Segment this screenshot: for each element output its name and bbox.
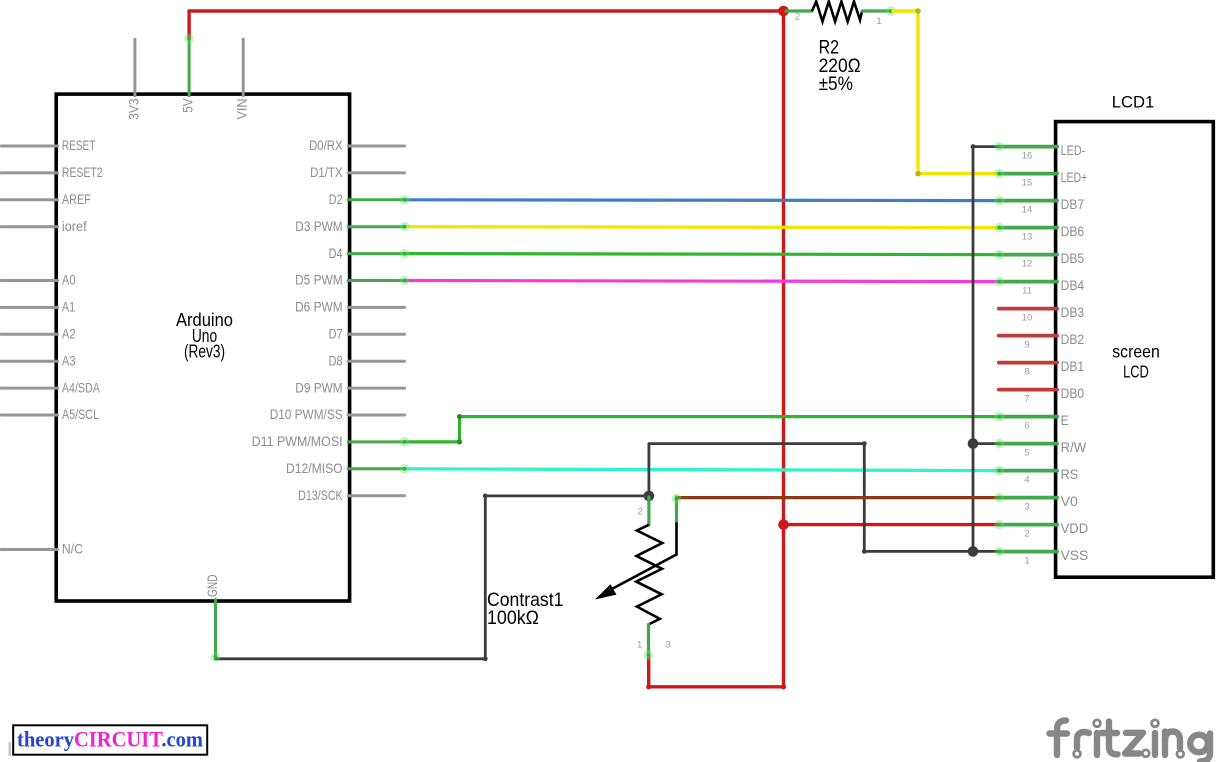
svg-text:100kΩ: 100kΩ [487, 608, 539, 629]
arduino U1 label "Arduino Uno (Rev3)" [176, 310, 233, 362]
svg-text:7: 7 [1024, 394, 1029, 405]
LCD pin stub DB7 (pin 14) [999, 199, 1057, 203]
svg-text:D5 PWM: D5 PWM [295, 272, 343, 288]
LCD pin stub E (pin 6) [999, 415, 1057, 419]
svg-text:DB4: DB4 [1061, 277, 1085, 293]
svg-text:3V3: 3V3 [125, 98, 141, 119]
svg-text:DB1: DB1 [1061, 358, 1085, 374]
wire gnd: vertical up [484, 496, 487, 659]
junction red at resistor [778, 6, 789, 17]
arduino pin stub A4/SDA [1, 387, 57, 390]
glow pot pin3 [672, 494, 682, 504]
svg-text:A1: A1 [62, 299, 75, 315]
wire gnd: jog down [863, 444, 866, 552]
junction red at VDD [778, 519, 789, 530]
scrollbar artifact tick [9, 742, 12, 756]
LCD pin stub V0 (pin 3) [999, 496, 1057, 500]
wire green D11 horizontal [405, 440, 460, 443]
svg-text:D11 PWM/MOSI: D11 PWM/MOSI [252, 433, 343, 449]
svg-text:3: 3 [1024, 502, 1029, 513]
resistor R2 left lead [786, 9, 812, 12]
svg-text:DB3: DB3 [1061, 304, 1085, 320]
svg-text:LCD1: LCD1 [1112, 93, 1155, 112]
wire red 5V: main vertical [782, 11, 785, 687]
svg-text:1: 1 [876, 16, 881, 27]
potentiometer Contrast1 zigzag [636, 525, 662, 625]
arduino pin stub D6 PWM [348, 306, 404, 309]
wire gnd: long vertical LED- to VSS [972, 147, 975, 552]
svg-text:ioref: ioref [62, 218, 87, 234]
arduino U1 box [56, 94, 349, 601]
arduino pin stub D5 PWM [348, 279, 404, 282]
LCD pin stub DB3 (pin 10) [999, 307, 1057, 311]
arduino pin stub A1 [1, 306, 57, 309]
arduino pin stub D12/MISO [348, 467, 404, 470]
resistor R2 zigzag [812, 2, 862, 22]
arduino pin stub A0 [1, 279, 57, 282]
svg-text:LCD: LCD [1123, 361, 1149, 381]
corner dot gnd [483, 656, 488, 661]
LCD pin stub DB5 (pin 12) [999, 253, 1057, 257]
svg-text:±5%: ±5% [819, 74, 853, 95]
junction pot pin2 [644, 491, 655, 502]
glow R2 pin1 [886, 6, 896, 16]
potentiometer Contrast1 pin2 stub [647, 497, 650, 525]
corner dot yellow bottom [915, 171, 921, 177]
glow pot pin1 [644, 650, 654, 660]
LCD pin stub R/W (pin 5) [999, 442, 1057, 446]
LCD1 box [1056, 122, 1214, 578]
svg-text:D3 PWM: D3 PWM [295, 218, 342, 234]
wire red 5V: vertical from 5V pin up [187, 11, 190, 38]
wire green to E pin [460, 415, 999, 418]
wire red: VDD branch [784, 523, 999, 526]
wire yellow: from R2 to corner [893, 9, 918, 12]
svg-text:2: 2 [795, 12, 800, 23]
pot pin3 lead black [675, 523, 678, 554]
svg-text:RESET2: RESET2 [62, 164, 103, 180]
svg-text:15: 15 [1022, 178, 1033, 189]
LCD pin stub DB1 (pin 8) [999, 361, 1057, 365]
wire gnd: vertical pot to R/W level [648, 444, 651, 496]
svg-text:12: 12 [1022, 259, 1033, 270]
svg-text:D12/MISO: D12/MISO [286, 460, 343, 476]
svg-text:11: 11 [1022, 286, 1032, 297]
svg-text:A5/SCL: A5/SCL [62, 406, 99, 422]
wire red: up to pot pin1 [647, 656, 650, 687]
corner dot gnd2 [483, 494, 488, 499]
svg-text:16: 16 [1022, 151, 1033, 162]
arduino pin stub D13/SCK [348, 494, 404, 497]
svg-text:V0: V0 [1061, 493, 1079, 509]
svg-text:E: E [1061, 412, 1069, 428]
wire gnd: to LED- pin [973, 145, 999, 148]
arduino pin stub D4 [348, 252, 404, 255]
svg-text:LED+: LED+ [1061, 169, 1088, 185]
svg-text:4: 4 [1024, 475, 1029, 486]
wire yellow: horizontal to LED+ [918, 172, 999, 175]
arduino pin stub VIN [242, 39, 245, 95]
arduino pin stub A3 [1, 360, 57, 363]
arduino pin stub D2 [348, 198, 404, 201]
svg-text:1: 1 [637, 640, 642, 651]
LCD pin stub DB2 (pin 9) [999, 334, 1057, 338]
svg-text:2: 2 [1024, 529, 1029, 540]
svg-text:D8: D8 [329, 352, 343, 368]
arduino pin stub D11 PWM/MOSI [348, 440, 404, 443]
svg-text:theoryCIRCUIT.com: theoryCIRCUIT.com [17, 727, 203, 752]
wire yellow: vertical [916, 11, 919, 174]
arduino pin stub AREF [1, 198, 57, 201]
wire yellow D3 to DB6 [405, 225, 999, 229]
svg-text:5: 5 [1024, 448, 1029, 459]
svg-text:(Rev3): (Rev3) [184, 342, 225, 362]
svg-text:GND: GND [204, 575, 220, 598]
pot wiper arrow [609, 555, 677, 591]
svg-text:D1/TX: D1/TX [310, 164, 343, 180]
svg-text:9: 9 [1024, 340, 1029, 351]
arduino pin stub D1/TX [348, 171, 404, 174]
corner dot red bottom right [781, 684, 786, 689]
wire red 5V: top horizontal [189, 9, 786, 12]
fritzing logo [1050, 721, 1211, 762]
svg-text:RESET: RESET [62, 137, 96, 153]
svg-text:D9 PWM: D9 PWM [295, 379, 342, 395]
wire red: bottom horizontal to pot pin1 [649, 685, 784, 688]
svg-text:VSS: VSS [1061, 547, 1089, 563]
wire gnd: to R/W pin [973, 442, 999, 445]
svg-text:DB2: DB2 [1061, 331, 1085, 347]
wire cyan D12/MISO to RS [405, 469, 999, 471]
svg-text:A4/SDA: A4/SDA [62, 379, 100, 395]
svg-text:D10 PWM/SS: D10 PWM/SS [270, 406, 343, 422]
svg-text:LED-: LED- [1061, 142, 1086, 158]
svg-text:8: 8 [1024, 367, 1029, 378]
arduino pin stub A2 [1, 333, 57, 336]
svg-text:A3: A3 [62, 352, 76, 368]
theoryCIRCUIT.com logo [13, 725, 207, 754]
svg-text:VDD: VDD [1061, 520, 1089, 536]
svg-text:D0/RX: D0/RX [309, 137, 343, 153]
R2 value label [819, 38, 861, 96]
svg-text:D13/SCK: D13/SCK [298, 487, 343, 503]
svg-text:VIN: VIN [234, 99, 250, 120]
svg-text:6: 6 [1024, 421, 1029, 432]
arduino pin stub GND (green, connected) [214, 600, 217, 658]
svg-text:D7: D7 [329, 326, 343, 342]
LCD pin stub LED+ (pin 15) [999, 172, 1057, 176]
junction at VSS [968, 546, 979, 557]
wire gnd: horizontal at R/W level [649, 442, 864, 445]
wire gnd: horizontal to VSS [864, 550, 999, 553]
LCD pin stub DB6 (pin 13) [999, 226, 1057, 230]
arduino pin stub D0/RX [348, 145, 404, 148]
corner dot at LED- [971, 144, 976, 149]
LCD pin stub LED- (pin 16) [999, 145, 1057, 149]
svg-text:D2: D2 [329, 191, 343, 207]
resistor R2 right lead [862, 9, 893, 12]
arduino pin stub ioref [1, 225, 57, 228]
wire magenta D5 to DB4 [405, 281, 999, 282]
LCD pin stub DB0 (pin 7) [999, 388, 1057, 392]
LCD pin stub VSS (pin 1) [999, 550, 1057, 554]
svg-text:1: 1 [1024, 556, 1029, 567]
wire blue D2 to DB7 [405, 198, 999, 202]
svg-text:AREF: AREF [62, 191, 91, 207]
potentiometer Contrast1 pin3 stub [675, 497, 678, 523]
wire green D11 vertical up [458, 417, 461, 442]
wire gnd: horizontal from GND pin [216, 657, 486, 660]
potentiometer Contrast1 pin1 stub [647, 625, 650, 657]
svg-text:3: 3 [665, 640, 670, 651]
svg-text:A2: A2 [62, 326, 76, 342]
arduino pin stub 3V3 [133, 39, 136, 95]
svg-text:10: 10 [1022, 313, 1033, 324]
corner dot green bottom [457, 439, 462, 444]
LCD pin stub DB4 (pin 11) [999, 280, 1057, 284]
junction at R/W [968, 438, 979, 449]
svg-text:A0: A0 [62, 272, 76, 288]
svg-text:5V: 5V [180, 98, 196, 113]
svg-text:D6 PWM: D6 PWM [295, 299, 343, 315]
svg-text:R/W: R/W [1061, 439, 1087, 455]
svg-text:2: 2 [637, 507, 642, 518]
LCD pin stub RS (pin 4) [999, 469, 1057, 473]
arduino pin stub RESET2 [1, 171, 57, 174]
svg-text:DB7: DB7 [1061, 196, 1085, 212]
arduino pin stub D3 PWM [348, 225, 404, 228]
arduino pin stub D7 [348, 333, 404, 336]
arduino pin stub A5/SCL [1, 414, 57, 417]
corner dot green top [457, 414, 462, 419]
wire brown pot pin3 to V0 [677, 496, 999, 499]
arduino pin stub RESET [1, 145, 57, 148]
LCD pin stub VDD (pin 2) [999, 523, 1057, 527]
corner dot jog bottom [862, 549, 867, 554]
arduino pin stub D9 PWM [348, 387, 404, 390]
svg-text:DB0: DB0 [1061, 385, 1085, 401]
svg-text:DB5: DB5 [1061, 250, 1085, 266]
corner dot red bottom left [646, 684, 651, 689]
svg-text:DB6: DB6 [1061, 223, 1085, 239]
svg-text:N/C: N/C [62, 541, 83, 557]
wire green D4 to DB5 [405, 254, 999, 255]
corner dot yellow top [915, 8, 921, 14]
arduino pin stub D8 [348, 360, 404, 363]
arduino pin stub N/C [1, 548, 57, 551]
glow dots arduino pins [400, 195, 410, 205]
pot label Contrast1 100k [487, 590, 563, 629]
arduino pin stub D10 PWM/SS [348, 414, 404, 417]
svg-text:screen: screen [1112, 341, 1160, 361]
svg-text:13: 13 [1022, 232, 1033, 243]
svg-text:14: 14 [1022, 205, 1033, 216]
svg-text:RS: RS [1061, 466, 1079, 482]
wire gnd: horizontal to pot pin2 [485, 494, 649, 497]
svg-text:D4: D4 [329, 245, 343, 261]
arduino pin stub 5V (green, connected) [188, 38, 191, 96]
corner dot jog top [862, 441, 867, 446]
glow dots LCD pins [994, 142, 1004, 152]
